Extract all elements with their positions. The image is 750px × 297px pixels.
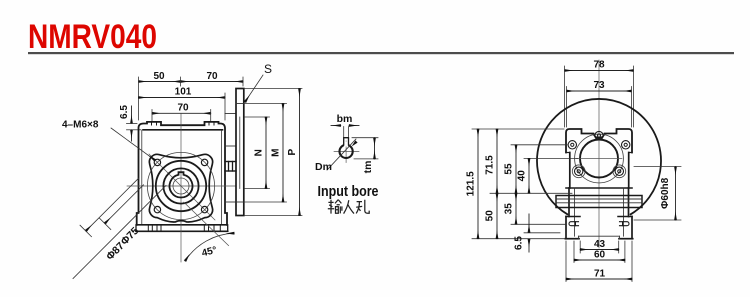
bm dim arrows bbox=[331, 125, 341, 127]
svg-text:71.5: 71.5 bbox=[485, 155, 496, 175]
flange side steps bbox=[566, 152, 570, 154]
dim M bbox=[282, 104, 284, 203]
svg-text:70: 70 bbox=[177, 102, 189, 113]
svg-text:Dm: Dm bbox=[315, 161, 332, 173]
foot slot left bbox=[569, 222, 579, 226]
45 deg arc dim bbox=[185, 233, 234, 261]
char 输 right bbox=[335, 200, 342, 214]
title underline bbox=[28, 52, 734, 54]
outer circle bbox=[156, 161, 206, 211]
phi label diagonal line bbox=[73, 186, 166, 279]
dim 6.5 arrows bbox=[131, 106, 133, 123]
boss ticks right bbox=[208, 122, 210, 125]
flange tick bottom bbox=[236, 201, 244, 203]
left chain stubs bbox=[472, 128, 564, 130]
dim phi60h8 bbox=[675, 167, 677, 220]
scallop flange bbox=[149, 154, 212, 222]
column inner thin bbox=[574, 188, 576, 236]
bolt hole BL bbox=[154, 206, 160, 212]
hole UR bbox=[622, 141, 630, 149]
svg-text:60: 60 bbox=[594, 250, 606, 261]
base band bottom bbox=[136, 230, 228, 232]
svg-text:tm: tm bbox=[362, 161, 374, 174]
svg-text:45°: 45° bbox=[201, 245, 218, 259]
svg-text:73: 73 bbox=[593, 80, 605, 91]
tm dim line bbox=[374, 138, 376, 159]
char 输 radical bbox=[328, 200, 334, 214]
svg-text:Φ60h8: Φ60h8 bbox=[660, 177, 671, 208]
Dm arrowhead bbox=[352, 140, 358, 146]
svg-text:P: P bbox=[287, 149, 298, 156]
svg-text:50: 50 bbox=[485, 210, 496, 222]
svg-text:bm: bm bbox=[337, 113, 353, 125]
hole UL bbox=[568, 141, 576, 149]
ext line left body bbox=[138, 77, 140, 120]
worm tube lines bbox=[225, 113, 236, 115]
dim 50 bbox=[496, 193, 498, 238]
hub circle bbox=[163, 168, 198, 203]
flange lower sides bbox=[569, 153, 571, 189]
phi60h8 stubs bbox=[634, 166, 681, 168]
char 孔 hook bbox=[365, 200, 369, 213]
centerline cross bbox=[334, 150, 359, 152]
feet top steps bbox=[566, 216, 580, 218]
char 孔 left bbox=[356, 202, 362, 214]
dim 6.5 right view bbox=[528, 214, 530, 232]
dim 73 bbox=[567, 90, 632, 92]
centerline horizontal bbox=[127, 185, 236, 187]
body outline bbox=[137, 122, 227, 225]
Dm leader diagonal bbox=[327, 139, 356, 170]
flange inner line bbox=[239, 117, 241, 189]
hole top bbox=[595, 131, 603, 139]
svg-text:40: 40 bbox=[517, 170, 528, 182]
svg-text:S: S bbox=[264, 62, 272, 76]
S leader bbox=[245, 75, 263, 102]
ext stubs P M N bbox=[245, 88, 303, 90]
svg-text:50: 50 bbox=[153, 71, 165, 82]
dim 71 bbox=[565, 241, 567, 282]
svg-text:121.5: 121.5 bbox=[466, 171, 477, 196]
cover joint line bbox=[143, 129, 223, 131]
dim 43 bbox=[579, 241, 581, 253]
dim 101 line bbox=[139, 97, 226, 99]
dim 121.5 bbox=[477, 129, 479, 239]
phi75 dim line bbox=[105, 185, 144, 224]
big housing circle bbox=[537, 99, 661, 214]
bm ext lines bbox=[343, 127, 345, 138]
ext line body right bbox=[224, 93, 226, 120]
dim P bbox=[299, 89, 301, 216]
base ticks left foot bbox=[147, 225, 149, 232]
svg-text:M: M bbox=[271, 149, 282, 157]
keyway slot bbox=[344, 138, 349, 145]
bolt hole BR bbox=[201, 206, 207, 212]
svg-text:6.5: 6.5 bbox=[119, 105, 130, 119]
feet bottoms bbox=[565, 238, 579, 240]
ext lines bosses bbox=[151, 110, 153, 122]
flange outline top bbox=[566, 129, 632, 153]
bolt hole TR bbox=[201, 159, 207, 165]
svg-text:4–M6×8: 4–M6×8 bbox=[62, 120, 99, 131]
svg-text:35: 35 bbox=[504, 203, 515, 215]
svg-text:71: 71 bbox=[594, 269, 606, 280]
caption chinese 输入孔 (drawn strokes) bbox=[328, 200, 369, 214]
svg-text:NMRV040: NMRV040 bbox=[28, 18, 157, 56]
hole LL bbox=[575, 167, 583, 175]
dim 78 bbox=[565, 70, 634, 72]
vertical centerline bbox=[598, 60, 600, 248]
diagonal hole axis bbox=[149, 154, 215, 220]
bore with keyway bbox=[170, 172, 193, 197]
base ticks right foot bbox=[203, 225, 205, 232]
leader 4-M6x8 bbox=[111, 128, 155, 160]
svg-text:101: 101 bbox=[175, 87, 192, 98]
centerline vertical bbox=[180, 114, 182, 262]
phi75 ext tick bbox=[99, 218, 111, 230]
feet outer verticals bbox=[565, 217, 567, 239]
band bbox=[556, 196, 642, 208]
svg-text:N: N bbox=[254, 149, 265, 156]
ext line flange right bbox=[242, 77, 244, 86]
flange tick top bbox=[236, 103, 244, 105]
flange bottom edge bbox=[566, 187, 632, 189]
phi87 dim line bbox=[86, 178, 139, 231]
bolt circle thin bbox=[147, 152, 214, 219]
column edges bbox=[568, 188, 570, 217]
inner wall lines bbox=[141, 131, 143, 225]
tm stubs bbox=[352, 137, 378, 139]
dim 50/70 line bbox=[139, 81, 244, 83]
svg-text:78: 78 bbox=[593, 60, 605, 71]
dim 71.5 bbox=[496, 129, 498, 193]
phi87 ext tick bbox=[80, 225, 92, 237]
band stripes bbox=[556, 198, 642, 200]
dim 35 bbox=[515, 193, 517, 224]
svg-text:6.5: 6.5 bbox=[514, 236, 525, 250]
base band top bbox=[137, 224, 227, 226]
bolt hole TL bbox=[154, 159, 160, 165]
dim 40 bbox=[528, 158, 530, 193]
boss circle thin bbox=[575, 134, 624, 183]
central circle h centerline bbox=[576, 158, 622, 160]
mid underside thin bbox=[579, 235, 620, 237]
svg-text:55: 55 bbox=[504, 163, 515, 175]
45 deg leg line bbox=[184, 202, 229, 246]
foot slot right bbox=[620, 222, 630, 226]
boss ticks left bbox=[151, 122, 153, 125]
svg-text:43: 43 bbox=[594, 239, 606, 250]
svg-text:Input bore: Input bore bbox=[318, 184, 379, 200]
char 入 bbox=[344, 200, 354, 213]
svg-text:70: 70 bbox=[206, 71, 218, 82]
dim 60 bbox=[573, 241, 575, 263]
lower hole boss rings bbox=[572, 165, 585, 178]
bore inner thin circle bbox=[173, 178, 189, 194]
dim N bbox=[265, 117, 267, 189]
central circle bbox=[580, 140, 618, 178]
dim 55 bbox=[515, 145, 517, 194]
dim 6.5 stubs bbox=[127, 123, 138, 125]
hole LR bbox=[615, 167, 623, 175]
ext line mid tick bbox=[180, 77, 182, 86]
dim 70 inner line bbox=[152, 112, 211, 114]
keyway slot white patch bbox=[344, 142, 348, 147]
base band sides bbox=[135, 225, 137, 232]
input bore circle bbox=[340, 145, 353, 158]
flange plate bbox=[236, 89, 244, 216]
